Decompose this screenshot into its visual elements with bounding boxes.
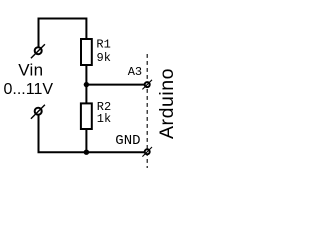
wire from R2 bottom down to GND rail bbox=[85, 129, 87, 153]
pin GND bbox=[142, 147, 152, 157]
resistor R1 body bbox=[81, 39, 92, 65]
wire from R1 bottom to node A3 and across to pin A3 bbox=[86, 65, 145, 85]
svg-text:Vin: Vin bbox=[18, 61, 43, 80]
svg-text:R1: R1 bbox=[96, 38, 110, 52]
svg-text:0...11V: 0...11V bbox=[4, 81, 54, 98]
pin A3 bbox=[142, 80, 152, 90]
svg-text:A3: A3 bbox=[128, 65, 142, 79]
wire from terminal X2 down and across to pin GND bbox=[39, 115, 145, 153]
svg-text:9k: 9k bbox=[97, 51, 111, 65]
svg-text:1k: 1k bbox=[97, 112, 111, 126]
wire from terminal X1 up and across to R1 top bbox=[39, 19, 87, 48]
terminal X1 (Vin +) bbox=[31, 44, 45, 58]
wire from node A3 down to R2 top bbox=[85, 85, 87, 104]
svg-text:GND: GND bbox=[115, 133, 140, 149]
Arduino board edge (dashed net boundary) bbox=[146, 54, 148, 168]
terminal X2 (Vin -) bbox=[31, 105, 45, 119]
junction node A3 bbox=[84, 82, 89, 87]
junction node GND rail bbox=[84, 150, 89, 155]
svg-text:Arduino: Arduino bbox=[156, 68, 176, 139]
resistor R2 body bbox=[81, 103, 92, 129]
